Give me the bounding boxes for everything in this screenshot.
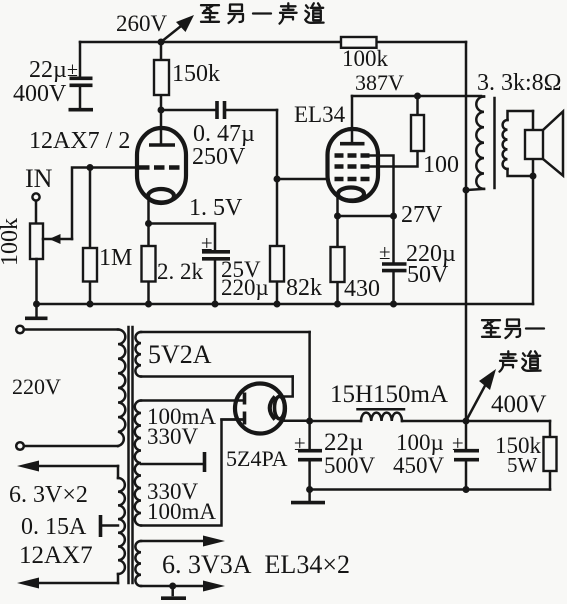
resistor R5 430 cathode (331, 216, 381, 304)
svg-text:220V: 220V (12, 374, 61, 399)
svg-text:27V: 27V (401, 202, 443, 228)
svg-text:15H150mA: 15H150mA (330, 381, 448, 408)
svg-text:6. 3V3A EL34×2: 6. 3V3A EL34×2 (162, 550, 350, 579)
wire bottom negative rail (306, 486, 550, 493)
wire B+ 260V top rail (80, 41, 466, 44)
transformer T2 secondary (503, 111, 533, 176)
wire EL34 g3 to cathode (369, 156, 394, 217)
ground symbol left (25, 304, 48, 318)
wire arrow 400V to other channel (466, 369, 547, 421)
svg-text:500V: 500V (324, 453, 376, 478)
transformer T1 core (129, 327, 133, 583)
tube V2 EL34 (294, 96, 378, 216)
svg-text:±: ± (379, 240, 391, 264)
resistor R3 82k grid leak EL34 (270, 246, 322, 301)
svg-text:3. 3k:8Ω: 3. 3k:8Ω (477, 70, 562, 96)
svg-text:260V: 260V (116, 11, 168, 36)
wire 6.3V center tap (101, 515, 119, 537)
node 387V line (352, 70, 481, 100)
svg-text:250V: 250V (192, 144, 246, 170)
transformer T1 primary 220V winding (118, 330, 125, 447)
svg-text:1M: 1M (99, 245, 132, 271)
svg-text:IN: IN (25, 164, 53, 193)
svg-text:±: ± (201, 231, 213, 255)
svg-text:1. 5V: 1. 5V (189, 195, 243, 221)
svg-text:50V: 50V (407, 262, 449, 288)
svg-text:12AX7 / 2: 12AX7 / 2 (29, 128, 130, 154)
tube V1 12AX7 (29, 110, 186, 224)
svg-text:100k: 100k (0, 218, 23, 266)
terminal IN input (25, 164, 53, 224)
node 12AX7 cathode junction (145, 195, 243, 227)
resistor R2 2.2k cathode (142, 224, 204, 305)
svg-text:12AX7: 12AX7 (19, 542, 93, 569)
capacitor C1 22µ 400V filter (13, 42, 93, 110)
node EL34 cathode junction 27V (334, 202, 443, 228)
svg-text:100mA: 100mA (147, 499, 216, 524)
tube V3 5Z4PA rectifier (222, 377, 310, 472)
ground bus rail (33, 301, 533, 308)
capacitor C6 100µ 450V (393, 421, 479, 490)
svg-text:100k: 100k (342, 46, 389, 71)
node 260V junction (116, 11, 168, 46)
svg-text:5Z4PA: 5Z4PA (226, 446, 288, 471)
svg-text:±: ± (67, 59, 78, 81)
resistor R1 150k plate load (154, 42, 220, 110)
transformer T1 6.3V x2 winding (9, 461, 125, 589)
svg-text:±: ± (294, 431, 306, 455)
svg-text:100µ: 100µ (396, 430, 444, 455)
wire coupling to EL34 grid (274, 110, 329, 304)
wire HV top to rectifier plate (141, 399, 244, 402)
wire EL34 g2 to 100 ohm (369, 151, 418, 167)
transformer T1 6.3V 3A winding (135, 536, 350, 592)
svg-text:220µ: 220µ (221, 275, 269, 300)
node 400V B+ rail (306, 418, 550, 425)
terminal 220V mains input (12, 326, 118, 450)
ground symbol bottom (291, 490, 325, 503)
svg-text:5V2A: 5V2A (148, 340, 212, 369)
wire HV bottom to rectifier plate 2 (141, 420, 244, 526)
resistor R6 150k 5W bleeder (495, 421, 557, 490)
svg-text:387V: 387V (355, 70, 404, 95)
speaker LS1 (525, 111, 563, 304)
capacitor C3 220µ 25V cathode bypass (149, 224, 269, 305)
resistor 1M grid leak (83, 168, 132, 305)
wire HV center tap (141, 452, 205, 472)
svg-text:100: 100 (423, 152, 459, 178)
svg-text:5W: 5W (507, 453, 538, 477)
svg-text:EL34: EL34 (294, 102, 346, 127)
wire arrow to other channel (top) (161, 15, 194, 42)
wire 12AX7 grid line (72, 164, 139, 239)
svg-text:22µ: 22µ (324, 429, 363, 456)
wire 400V rail vertical right (465, 42, 468, 421)
svg-text:430: 430 (344, 276, 380, 302)
svg-text:0. 15A: 0. 15A (21, 514, 87, 540)
svg-text:330V: 330V (147, 424, 199, 449)
capacitor C5 22µ 500V (294, 421, 376, 490)
node transformer primary bottom (463, 187, 470, 194)
svg-text:±: ± (452, 431, 464, 455)
wire 5V to B+ node (308, 332, 311, 421)
svg-text:150k: 150k (172, 61, 220, 87)
inductor L1 choke 15H150mA (330, 381, 448, 421)
svg-text:6. 3V×2: 6. 3V×2 (9, 482, 88, 508)
resistor R4 100 screen (411, 96, 459, 178)
resistor 100k feedback (341, 37, 389, 71)
node label 至另一声道 top (201, 3, 324, 23)
svg-text:400V: 400V (13, 81, 67, 107)
transformer T1 5V winding (135, 332, 309, 377)
capacitor C2 0.47µ coupling (161, 101, 277, 170)
ground 6.3V winding (161, 583, 186, 599)
svg-text:22µ: 22µ (29, 57, 67, 83)
node label 至另一 / 声道 right (482, 320, 544, 372)
potentiometer 100k volume (0, 218, 72, 304)
transformer T1 HV winding 330-0-330 (135, 401, 217, 526)
transformer T2 output primary (466, 70, 562, 190)
svg-text:82k: 82k (286, 275, 322, 301)
svg-text:400V: 400V (491, 391, 547, 418)
node 12AX7 plate junction (158, 107, 165, 114)
svg-text:450V: 450V (393, 453, 445, 478)
capacitor C4 220µ 50V bypass (379, 216, 456, 304)
transformer T2 core (493, 98, 496, 188)
svg-text:2. 2k: 2. 2k (157, 259, 204, 284)
